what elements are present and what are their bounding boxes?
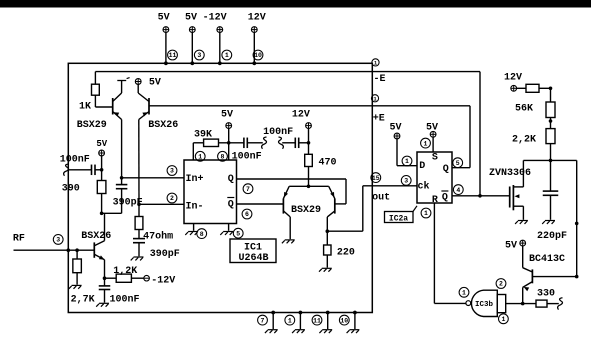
svg-text:2: 2: [170, 195, 174, 202]
svg-text:5V: 5V: [221, 110, 233, 121]
svg-text:5V: 5V: [96, 139, 107, 149]
svg-text:RF: RF: [13, 234, 25, 245]
svg-text:10: 10: [340, 317, 348, 324]
svg-text:220pF: 220pF: [537, 231, 567, 242]
svg-text:47ohm: 47ohm: [143, 231, 173, 243]
svg-text:12V: 12V: [504, 73, 522, 84]
svg-text:11: 11: [169, 52, 177, 59]
svg-text:BSX29: BSX29: [77, 120, 107, 131]
svg-text:12V: 12V: [248, 13, 266, 24]
svg-text:5V: 5V: [149, 78, 161, 89]
svg-text:1,2K: 1,2K: [113, 266, 137, 277]
svg-text:1: 1: [424, 210, 428, 217]
svg-text:2,2K: 2,2K: [512, 135, 536, 146]
svg-text:5V: 5V: [426, 123, 438, 134]
svg-text:1: 1: [198, 154, 202, 161]
svg-text:1: 1: [288, 317, 292, 324]
svg-text:IC2a: IC2a: [389, 214, 408, 223]
svg-text:out: out: [372, 192, 390, 203]
svg-text:1: 1: [462, 290, 466, 297]
svg-text:11: 11: [313, 317, 321, 324]
svg-text:390pF: 390pF: [150, 249, 180, 260]
svg-text:BSX26: BSX26: [148, 120, 178, 131]
svg-text:BSX29: BSX29: [291, 205, 321, 216]
svg-text:5V: 5V: [390, 123, 402, 134]
svg-text:3: 3: [197, 52, 201, 59]
svg-text:Q: Q: [228, 200, 234, 211]
svg-text:12V: 12V: [292, 110, 310, 121]
svg-text:470: 470: [319, 158, 337, 169]
svg-text:3: 3: [56, 237, 60, 244]
svg-text:BSX26: BSX26: [81, 231, 111, 242]
svg-text:7: 7: [261, 317, 265, 324]
svg-text:5V: 5V: [158, 13, 170, 24]
svg-text:ck: ck: [418, 180, 430, 192]
svg-text:5: 5: [456, 160, 460, 167]
svg-text:15: 15: [372, 175, 380, 182]
svg-text:4: 4: [456, 187, 460, 194]
svg-text:330: 330: [537, 289, 555, 300]
svg-text:3: 3: [170, 168, 174, 175]
svg-text:220: 220: [337, 248, 355, 259]
svg-text:IC1: IC1: [244, 243, 262, 254]
svg-text:2,7K: 2,7K: [71, 295, 95, 306]
svg-text:1: 1: [225, 52, 229, 59]
svg-text:In-: In-: [186, 202, 204, 213]
svg-text:100nF: 100nF: [263, 127, 293, 138]
svg-text:1: 1: [501, 316, 505, 323]
svg-text:-12V: -12V: [203, 13, 227, 24]
svg-text:+E: +E: [373, 113, 385, 124]
svg-text:U264B: U264B: [239, 253, 269, 264]
svg-text:5: 5: [236, 230, 240, 237]
svg-text:56K: 56K: [515, 104, 533, 115]
svg-text:100nF: 100nF: [110, 295, 140, 306]
svg-text:1: 1: [405, 158, 409, 165]
svg-text:1K: 1K: [79, 102, 91, 113]
svg-text:In+: In+: [186, 174, 204, 185]
svg-text:10: 10: [254, 52, 262, 59]
svg-text:100nF: 100nF: [60, 155, 90, 166]
svg-text:5V: 5V: [185, 13, 197, 24]
svg-text:3: 3: [404, 178, 408, 185]
svg-text:Q: Q: [442, 193, 448, 204]
svg-text:-12V: -12V: [151, 276, 175, 287]
svg-text:2: 2: [499, 281, 503, 288]
svg-text:5V: 5V: [505, 241, 517, 252]
svg-text:BC413C: BC413C: [529, 254, 565, 265]
svg-text:D: D: [419, 161, 425, 172]
svg-text:390: 390: [62, 184, 80, 195]
svg-text:-E: -E: [374, 74, 386, 85]
svg-text:8: 8: [200, 231, 204, 238]
svg-text:1: 1: [424, 140, 428, 147]
svg-text:ZVN3306: ZVN3306: [489, 168, 531, 179]
svg-text:8: 8: [221, 154, 225, 161]
svg-text:S: S: [432, 152, 438, 163]
svg-text:Q: Q: [228, 174, 234, 185]
svg-text:7: 7: [246, 186, 250, 193]
svg-text:Q: Q: [443, 164, 449, 175]
svg-text:6: 6: [245, 211, 249, 218]
svg-text:IC3b: IC3b: [475, 301, 494, 309]
